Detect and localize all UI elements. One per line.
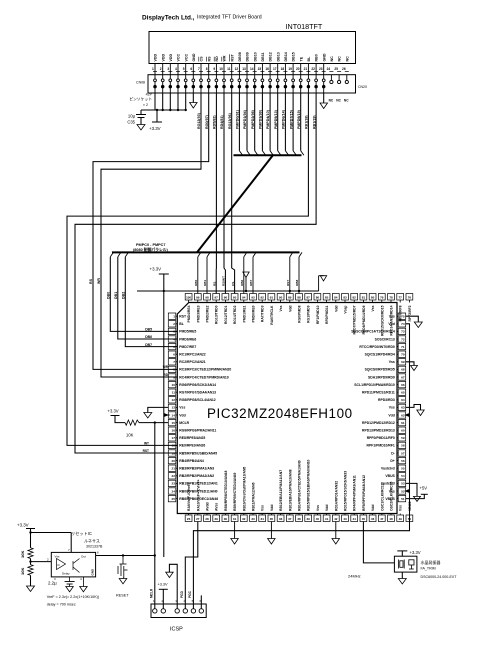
svg-text:CS: CS (200, 56, 204, 62)
svg-text:RPD11/PMCS1/RD11: RPD11/PMCS1/RD11 (362, 391, 395, 395)
svg-text:48: 48 (389, 517, 393, 521)
svg-text:63: 63 (401, 406, 405, 410)
svg-text:74: 74 (401, 322, 405, 326)
svg-text:69: 69 (401, 360, 405, 364)
svg-text:Vss: Vss (179, 406, 185, 410)
svg-text:VDD: VDD (154, 54, 158, 62)
svg-text:RPD13/PMD13/RD13: RPD13/PMD13/RD13 (362, 429, 395, 433)
svg-text:RB15/RPB15/EBIA0/PMA0/AN10: RB15/RPB15/EBIA0/PMA0/AN10 (307, 459, 311, 511)
svg-text:Delay: Delay (62, 572, 70, 576)
svg-text:DB1: DB1 (114, 292, 118, 299)
svg-text:85: 85 (325, 296, 329, 300)
svg-text:RA9/VreF-/CVreF-: RA9/VreF-/CVreF- (187, 483, 191, 511)
svg-text:99: 99 (196, 296, 200, 300)
svg-text:72: 72 (401, 337, 405, 341)
svg-text:27: 27 (196, 517, 200, 521)
svg-text:CN20: CN20 (358, 85, 367, 89)
svg-text:Vdd: Vdd (270, 505, 274, 511)
svg-text:DB2: DB2 (122, 292, 126, 299)
svg-text:14: 14 (250, 67, 254, 71)
svg-text:RS: RS (207, 56, 211, 62)
svg-text:25: 25 (334, 67, 338, 71)
svg-text:PMD2/RE2: PMD2/RE2 (206, 305, 210, 322)
svg-text:4: 4 (173, 337, 175, 341)
svg-text:D-: D- (391, 451, 395, 455)
svg-text:SQICS0/RPD5/RD5: SQICS0/RPD5/RD5 (365, 368, 395, 372)
svg-text:Vss: Vss (399, 505, 403, 511)
svg-text:61: 61 (401, 421, 405, 425)
svg-text:76: 76 (408, 296, 412, 300)
svg-text:59: 59 (401, 436, 405, 440)
svg-text:Vss: Vss (55, 555, 61, 559)
svg-text:DB8: DB8 (295, 280, 299, 286)
svg-text:RST: RST (230, 54, 234, 62)
svg-text:13: 13 (242, 67, 246, 71)
svg-text:PGC: PGC (188, 590, 192, 598)
svg-text:12: 12 (235, 67, 239, 71)
svg-text:44: 44 (353, 517, 357, 521)
svg-text:(8080 制御パラレル): (8080 制御パラレル) (133, 247, 169, 252)
svg-text:リセットIC: リセットIC (71, 531, 92, 536)
svg-text:RC2/RPC2/AN21: RC2/RPC2/AN21 (179, 360, 205, 364)
svg-text:18: 18 (172, 444, 176, 448)
svg-text:84: 84 (334, 296, 338, 300)
svg-text:RPF0/PMD11/RF0: RPF0/PMD11/RF0 (367, 436, 395, 440)
svg-text:PIC32MZ2048EFH100: PIC32MZ2048EFH100 (207, 406, 353, 421)
svg-text:98: 98 (205, 296, 209, 300)
svg-text:+3.3V: +3.3V (150, 267, 162, 272)
svg-text:11: 11 (172, 391, 176, 395)
svg-text:MCLR: MCLR (179, 421, 189, 425)
svg-text:TE: TE (299, 56, 303, 61)
svg-text:47: 47 (380, 517, 384, 521)
svg-text:RA10/VreF+/CVreF+: RA10/VreF+/CVreF+ (196, 479, 200, 511)
svg-text:RST: RST (143, 449, 149, 453)
svg-text:DB6: DB6 (145, 335, 152, 339)
svg-text:RB5/RPB5/USBID/AN45: RB5/RPB5/USBID/AN45 (179, 451, 217, 455)
svg-text:78: 78 (389, 296, 393, 300)
svg-text:95: 95 (233, 296, 237, 300)
svg-text:RD: RD (215, 56, 219, 62)
svg-text:INT018TFT: INT018TFT (286, 22, 323, 31)
svg-text:58: 58 (401, 444, 405, 448)
svg-text:RST: RST (179, 315, 187, 319)
svg-text:5: 5 (173, 345, 175, 349)
svg-text:RB8/RPB8/CTED10/AN48: RB8/RPB8/CTED10/AN48 (224, 471, 228, 511)
svg-text:PMD3/RE3: PMD3/RE3 (196, 305, 200, 322)
svg-text:39: 39 (307, 517, 311, 521)
svg-text:RG7/RPG7/SDA4/AN13: RG7/RPG7/SDA4/AN13 (179, 391, 216, 395)
svg-text:RB14/RPB14/CTED5/PMA1/AN9: RB14/RPB14/CTED5/PMA1/AN9 (298, 460, 302, 511)
svg-text:97: 97 (215, 296, 219, 300)
svg-text:43: 43 (343, 517, 347, 521)
svg-text:Vss: Vss (279, 305, 283, 311)
svg-text:26: 26 (187, 517, 191, 521)
svg-text:RPD15/SCK6/RD15: RPD15/SCK6/RD15 (380, 305, 384, 336)
svg-text:37: 37 (288, 517, 292, 521)
svg-text:Vusb3v3: Vusb3v3 (381, 467, 395, 471)
svg-text:49: 49 (399, 517, 403, 521)
svg-text:BL: BL (179, 322, 184, 326)
svg-text:32: 32 (242, 517, 246, 521)
svg-text:64: 64 (401, 398, 405, 402)
svg-text:RG0/PMD8: RG0/PMD8 (298, 305, 302, 322)
svg-text:17: 17 (273, 67, 277, 71)
svg-text:22: 22 (311, 67, 315, 71)
svg-text:9: 9 (173, 375, 175, 379)
svg-text:PMD1/RE1: PMD1/RE1 (242, 305, 246, 322)
svg-text:PGD: PGD (180, 590, 184, 598)
svg-text:RG6/RPG6/SCK2/AN14: RG6/RPG6/SCK2/AN14 (179, 383, 216, 387)
svg-text:RPD12/PMD12/RD12: RPD12/PMD12/RD12 (362, 421, 395, 425)
svg-text:RA6/TRCLK: RA6/TRCLK (270, 305, 274, 325)
svg-text:DB7: DB7 (145, 343, 152, 347)
svg-text:19: 19 (288, 67, 292, 71)
svg-text:81: 81 (362, 296, 366, 300)
svg-text:7: 7 (173, 360, 175, 364)
svg-text:RC4/RPC4/CTED7/PMRD/AN19: RC4/RPC4/CTED7/PMRD/AN19 (179, 375, 228, 379)
svg-text:SQICS1/RPD4/RD4: SQICS1/RPD4/RD4 (365, 353, 395, 357)
svg-text:2.2µ: 2.2µ (48, 581, 57, 586)
svg-text:14: 14 (172, 413, 176, 417)
svg-text:SOSCI/RC13: SOSCI/RC13 (375, 337, 395, 341)
svg-text:62: 62 (401, 413, 405, 417)
svg-text:SCL1/RPD10/PMA9/RD10: SCL1/RPD10/PMA9/RD10 (354, 383, 395, 387)
svg-text:DB0: DB0 (194, 280, 198, 286)
svg-text:RD15/RPD15/SCK6/AN33: RD15/RPD15/SCK6/AN33 (344, 471, 348, 511)
svg-text:WR: WR (97, 278, 101, 284)
svg-text:DB15: DB15 (292, 52, 296, 61)
svg-text:56: 56 (401, 459, 405, 463)
svg-text:6: 6 (173, 353, 175, 357)
svg-text:55: 55 (401, 467, 405, 471)
svg-text:RG1/PMD9: RG1/PMD9 (307, 305, 311, 322)
svg-text:73: 73 (401, 330, 405, 334)
svg-text:24MHz: 24MHz (348, 574, 361, 579)
svg-text:+3.3V: +3.3V (158, 583, 168, 587)
svg-text:OSC2/CLKO/RC15: OSC2/CLKO/RC15 (390, 481, 394, 511)
svg-text:RD14/RPD14/AN32: RD14/RPD14/AN32 (334, 481, 338, 511)
svg-text:13: 13 (172, 406, 176, 410)
svg-text:ICSP: ICSP (170, 627, 183, 633)
svg-text:DB0: DB0 (107, 292, 111, 299)
svg-text:21: 21 (172, 467, 176, 471)
svg-text:PMD6/RE6: PMD6/RE6 (179, 337, 196, 341)
svg-text:SOSCO/RPC14/T1CK/RC14: SOSCO/RPC14/T1CK/RC14 (351, 330, 395, 334)
svg-text:+3.3V: +3.3V (17, 523, 29, 528)
svg-text:VBUS: VBUS (385, 474, 395, 478)
svg-text:10: 10 (219, 67, 223, 71)
svg-text:Vss: Vss (389, 406, 395, 410)
svg-text:53: 53 (401, 482, 405, 486)
svg-text:31: 31 (233, 517, 237, 521)
svg-text:38: 38 (297, 517, 301, 521)
svg-text:DB5: DB5 (145, 328, 152, 332)
svg-text:DB1: DB1 (203, 280, 207, 286)
svg-text:100: 100 (186, 296, 191, 300)
svg-text:RA7/TRD3: RA7/TRD3 (261, 305, 265, 322)
svg-text:D+: D+ (390, 459, 394, 463)
svg-text:6: 6 (190, 67, 192, 71)
svg-text:RB2/RPB2/PMA2/AN2: RB2/RPB2/PMA2/AN2 (179, 474, 214, 478)
svg-text:26: 26 (342, 67, 346, 71)
svg-text:93: 93 (251, 296, 255, 300)
svg-text:90: 90 (279, 296, 283, 300)
svg-text:Vdd: Vdd (288, 306, 292, 312)
svg-text:16: 16 (265, 67, 269, 71)
svg-text:AVdd: AVdd (206, 502, 210, 511)
svg-text:NC: NC (329, 99, 334, 103)
svg-text:57: 57 (401, 451, 405, 455)
svg-text:RESET: RESET (116, 594, 129, 598)
svg-text:RF1/PMD10: RF1/PMD10 (316, 305, 320, 324)
svg-text:VDD: VDD (161, 54, 165, 62)
svg-text:CN08: CN08 (136, 81, 145, 85)
svg-text:10µ: 10µ (128, 114, 136, 119)
svg-text:5: 5 (183, 67, 185, 71)
svg-text:89: 89 (288, 296, 292, 300)
svg-text:51: 51 (401, 497, 405, 501)
svg-text:88: 88 (297, 296, 301, 300)
svg-text:54: 54 (401, 474, 405, 478)
svg-text:3: 3 (173, 330, 175, 334)
svg-text:GND: GND (192, 53, 196, 61)
svg-text:INT: INT (144, 441, 149, 445)
svg-text:DB7: DB7 (249, 280, 253, 286)
svg-text:10K: 10K (20, 568, 25, 575)
svg-text:94: 94 (242, 296, 246, 300)
svg-text:15: 15 (172, 421, 176, 425)
svg-text:DB6: DB6 (240, 280, 244, 286)
svg-text:65: 65 (401, 391, 405, 395)
svg-text:PMD7/RE7: PMD7/RE7 (179, 345, 196, 349)
svg-text:36: 36 (279, 517, 283, 521)
svg-text:10: 10 (172, 383, 176, 387)
svg-text:VreF = 2.3v(= 2.2x(1+10K/10K)): VreF = 2.3v(= 2.2x(1+10K/10K)) (47, 595, 99, 599)
svg-text:1: 1 (152, 67, 154, 71)
svg-text:DB14: DB14 (284, 52, 288, 61)
svg-text:WR: WR (223, 55, 227, 61)
svg-text:RB3/RPB3/PMA1/AN3: RB3/RPB3/PMA1/AN3 (179, 467, 214, 471)
svg-text:水晶発振器: 水晶発振器 (421, 559, 441, 565)
svg-text:PMD5/RE5: PMD5/RE5 (179, 330, 196, 334)
svg-text:24: 24 (172, 489, 176, 493)
svg-text:15: 15 (258, 67, 262, 71)
svg-text:23: 23 (319, 67, 323, 71)
svg-text:RB12/EBIA11/PMA11/AN7: RB12/EBIA11/PMA11/AN7 (279, 470, 283, 511)
svg-text:19: 19 (172, 451, 176, 455)
svg-text:RG12/TRD1: RG12/TRD1 (224, 305, 228, 324)
svg-text:RG14/TRD2: RG14/TRD2 (233, 305, 237, 324)
svg-text:NC: NC (330, 56, 334, 62)
svg-text:25: 25 (172, 497, 176, 501)
svg-text:7: 7 (198, 67, 200, 71)
svg-text:RG9/RPG9/PMA2/AN11: RG9/RPG9/PMA2/AN11 (179, 429, 216, 433)
svg-text:33: 33 (251, 517, 255, 521)
svg-text:RE8/RPE8/AN25: RE8/RPE8/AN25 (179, 436, 205, 440)
svg-text:18: 18 (281, 67, 285, 71)
svg-text:AVss: AVss (215, 503, 219, 511)
svg-text:ルネサス: ルネサス (84, 538, 100, 544)
svg-text:86: 86 (316, 296, 320, 300)
svg-text:DB11: DB11 (261, 53, 265, 62)
svg-text:3: 3 (167, 67, 169, 71)
svg-text:VDD: VDD (169, 54, 173, 62)
svg-text:45: 45 (362, 517, 366, 521)
svg-text:GND: GND (91, 568, 95, 576)
svg-text:3021337B: 3021337B (86, 545, 103, 549)
svg-text:96: 96 (224, 296, 228, 300)
svg-text:34: 34 (261, 517, 265, 521)
svg-text:RPD6/PMD14/RD6: RPD6/PMD14/RD6 (362, 305, 366, 334)
svg-text:PMD0/RE0: PMD0/RE0 (252, 305, 256, 322)
svg-text:35: 35 (270, 517, 274, 521)
svg-text:Out: Out (81, 555, 86, 559)
svg-text:ピンソケット: ピンソケット (129, 97, 152, 102)
svg-text:12: 12 (172, 398, 176, 402)
svg-text:RF5/RPF5/PMA8/AN12: RF5/RPF5/PMA8/AN12 (362, 475, 366, 511)
svg-text:RG13/TRD0: RG13/TRD0 (215, 305, 219, 324)
svg-text:80: 80 (371, 296, 375, 300)
svg-text:RB13/EBIA10/PMA10/AN8: RB13/EBIA10/PMA10/AN8 (288, 469, 292, 511)
svg-text:RPF1/PMD10/RF1: RPF1/PMD10/RF1 (367, 444, 395, 448)
svg-text:Vdd: Vdd (334, 306, 338, 312)
svg-text:DB08: DB08 (238, 52, 242, 61)
svg-text:+3.3V: +3.3V (149, 126, 161, 131)
svg-text:+5V: +5V (420, 486, 428, 491)
svg-text:RB0: RB0 (315, 54, 319, 61)
svg-text:41: 41 (325, 517, 329, 521)
svg-text:VCC: VCC (177, 54, 181, 62)
svg-text:SDA1/RPD9/RD9: SDA1/RPD9/RD9 (368, 375, 395, 379)
svg-text:OSC1/CLKI/RC12: OSC1/CLKI/RC12 (380, 483, 384, 511)
svg-text:NC: NC (338, 56, 342, 62)
svg-text:52: 52 (401, 489, 405, 493)
svg-text:DB12: DB12 (269, 52, 273, 61)
svg-text:RB9/RPB9/CTED4/AN49: RB9/RPB9/CTED4/AN49 (233, 472, 237, 511)
svg-text:RC1/RPC1/AN22: RC1/RPC1/AN22 (179, 353, 205, 357)
svg-text:21: 21 (304, 67, 308, 71)
svg-text:4: 4 (175, 67, 177, 71)
svg-text:DSC6000-24.000-EXT: DSC6000-24.000-EXT (421, 575, 458, 579)
svg-text:FA_TRIM: FA_TRIM (421, 566, 436, 570)
svg-text:Vss: Vss (316, 505, 320, 511)
svg-text:22: 22 (172, 474, 176, 478)
svg-text:× 2: × 2 (143, 103, 148, 107)
svg-text:82: 82 (353, 296, 357, 300)
svg-text:77: 77 (399, 296, 403, 300)
svg-text:16: 16 (172, 429, 176, 433)
svg-text:+3.3V: +3.3V (410, 550, 421, 555)
svg-text:23: 23 (172, 482, 176, 486)
svg-text:Vss: Vss (261, 505, 265, 511)
svg-text:RB11/PMA12/AN6: RB11/PMA12/AN6 (252, 482, 256, 511)
svg-text:RE9/RPE9/AN26: RE9/RPE9/AN26 (179, 444, 205, 448)
svg-text:NC: NC (345, 56, 349, 62)
svg-text:87: 87 (307, 296, 311, 300)
svg-text:28: 28 (205, 517, 209, 521)
svg-text:2: 2 (160, 67, 162, 71)
svg-text:VCC: VCC (184, 54, 188, 62)
svg-text:NC: NC (344, 99, 349, 103)
svg-text:RG8/RPG8/SCL4/AN12: RG8/RPG8/SCL4/AN12 (179, 398, 215, 402)
svg-text:Vss: Vss (371, 305, 375, 311)
svg-text:CS: CS (231, 282, 235, 286)
svg-text:20: 20 (296, 67, 300, 71)
svg-text:Vdd: Vdd (371, 505, 375, 511)
svg-text:RPD14/AN32/RD14: RPD14/AN32/RD14 (390, 305, 394, 335)
svg-text:RST: RST (286, 280, 290, 286)
svg-text:MCLR: MCLR (149, 588, 153, 598)
svg-text:67: 67 (401, 375, 405, 379)
svg-text:RPF2/RF2: RPF2/RF2 (408, 305, 412, 321)
svg-text:Vdd: Vdd (325, 505, 329, 511)
svg-text:RB10/CVrefOut/PMA13/AN5: RB10/CVrefOut/PMA13/AN5 (242, 467, 246, 511)
svg-text:8: 8 (173, 368, 175, 372)
svg-text:RPD3/RD3: RPD3/RD3 (378, 398, 395, 402)
svg-text:1: 1 (173, 315, 175, 319)
svg-text:DB10: DB10 (253, 52, 257, 61)
svg-text:Vdd: Vdd (388, 413, 394, 417)
svg-text:PMD4/RE4: PMD4/RE4 (187, 305, 191, 322)
svg-text:92: 92 (261, 296, 265, 300)
svg-text:RF0/PMD11: RF0/PMD11 (325, 305, 329, 324)
svg-text:60: 60 (401, 429, 405, 433)
svg-text:RS: RS (89, 278, 93, 284)
svg-text:20: 20 (172, 459, 176, 463)
svg-text:70: 70 (401, 353, 405, 357)
svg-text:2: 2 (173, 322, 175, 326)
svg-text:DB13: DB13 (276, 52, 280, 61)
svg-text:40: 40 (316, 517, 320, 521)
svg-text:24: 24 (327, 67, 331, 71)
svg-text:GND: GND (322, 53, 326, 61)
svg-text:RB4/RPB4/AN4: RB4/RPB4/AN4 (179, 459, 204, 463)
svg-text:Vss: Vss (389, 360, 395, 364)
svg-text:RS: RS (212, 282, 216, 286)
svg-text:42P: 42P (146, 93, 153, 97)
svg-text:91: 91 (270, 296, 274, 300)
svg-text:8: 8 (206, 67, 208, 71)
svg-text:RC3/RPC3/CTED12/PMWR/AN20: RC3/RPC3/CTED12/PMWR/AN20 (179, 368, 231, 372)
svg-text:delay = 700 msec: delay = 700 msec (47, 603, 76, 607)
svg-text:BL: BL (307, 56, 311, 62)
svg-text:PMPC0 - PMPC7: PMPC0 - PMPC7 (136, 243, 166, 247)
svg-text:46: 46 (371, 517, 375, 521)
svg-text:17: 17 (172, 436, 176, 440)
svg-text:42: 42 (334, 517, 338, 521)
svg-text:29: 29 (215, 517, 219, 521)
svg-text:10K: 10K (20, 551, 25, 558)
svg-text:71: 71 (401, 345, 405, 349)
svg-text:RTCC/RPD0/INT0/RD0: RTCC/RPD0/INT0/RD0 (359, 345, 395, 349)
svg-text:DB09: DB09 (246, 52, 250, 61)
svg-text:10K: 10K (126, 433, 134, 438)
svg-text:83: 83 (343, 296, 347, 300)
svg-text:68: 68 (401, 368, 405, 372)
svg-text:RF4/RPF4/PMA9/AN11: RF4/RPF4/PMA9/AN11 (353, 475, 357, 511)
svg-text:79: 79 (380, 296, 384, 300)
svg-text:Vcap: Vcap (344, 306, 348, 314)
svg-text:Vdd: Vdd (179, 413, 185, 417)
svg-text:RS/WT: RS/WT (222, 276, 226, 286)
svg-text:66: 66 (401, 383, 405, 387)
svg-text:30: 30 (224, 517, 228, 521)
svg-text:RPF8/RF8: RPF8/RF8 (399, 305, 403, 321)
svg-text:11: 11 (227, 67, 231, 71)
svg-text:RPD7/PMD15/RD7: RPD7/PMD15/RD7 (353, 305, 357, 334)
svg-text:C35: C35 (127, 120, 135, 125)
